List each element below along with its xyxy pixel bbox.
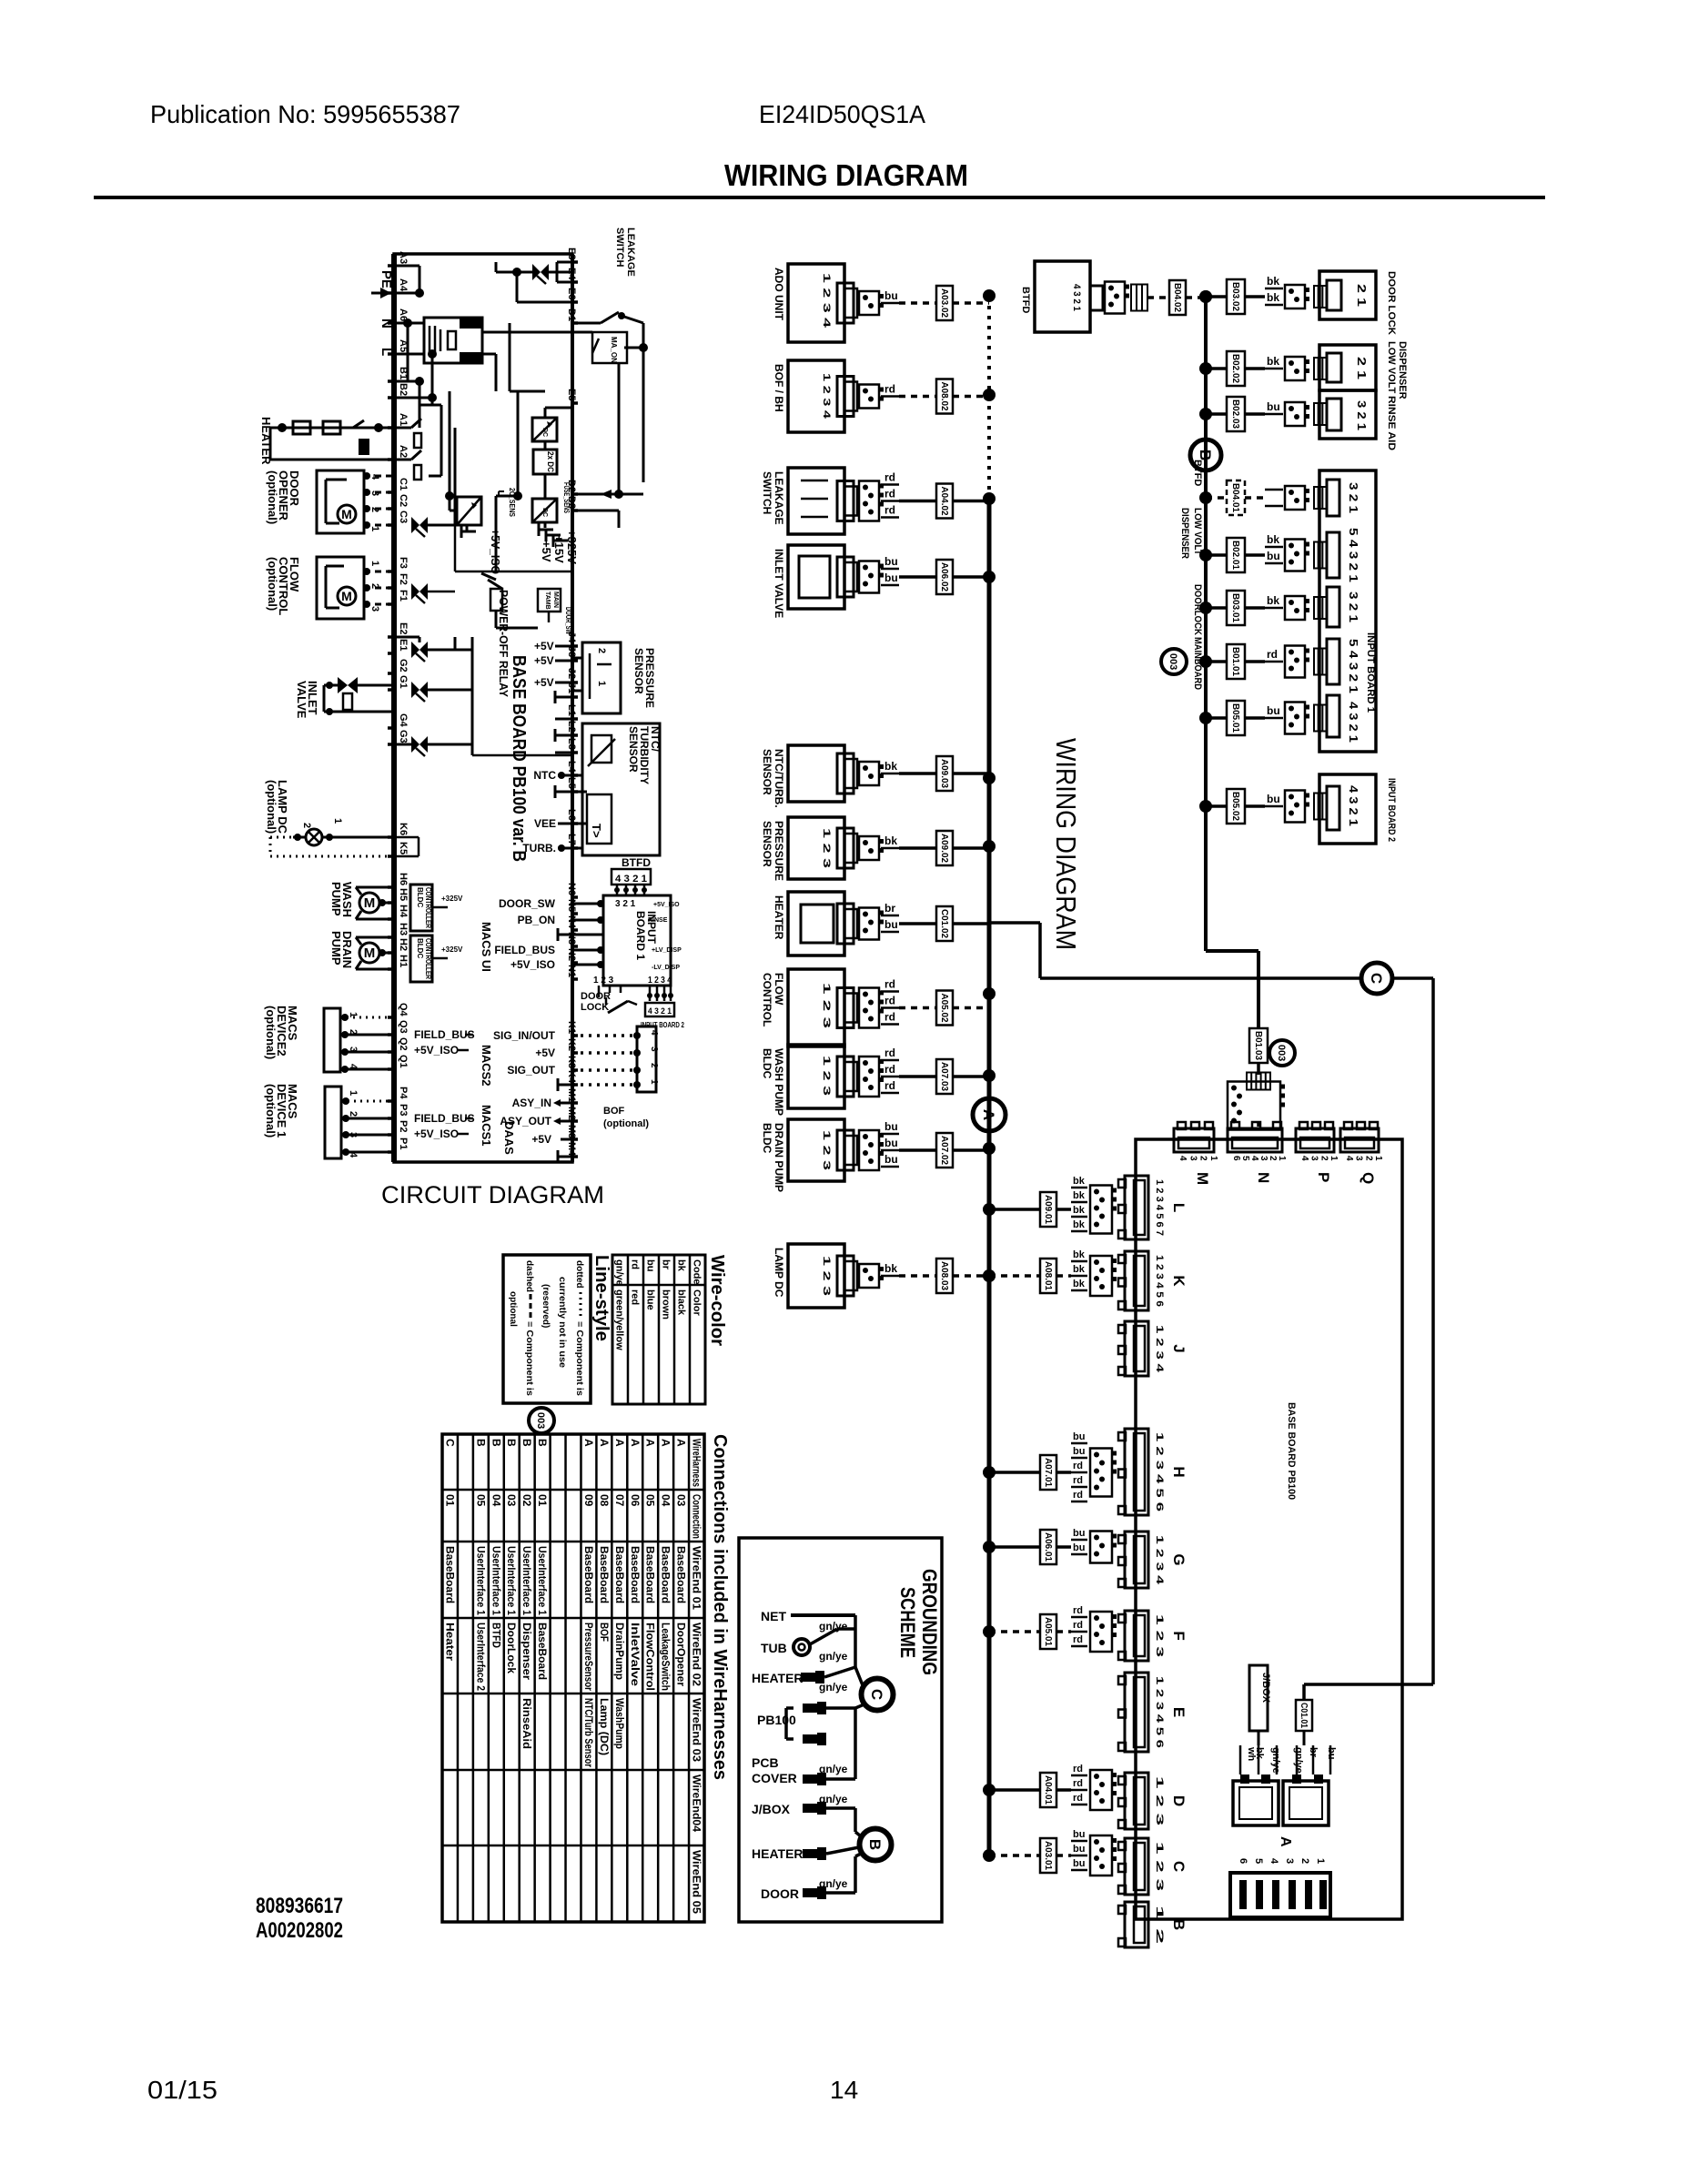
svg-text:BaseBoard: BaseBoard — [613, 1546, 626, 1603]
component MACS DEVICE2 (optional) — [264, 1006, 359, 1072]
svg-text:bk: bk — [1267, 291, 1279, 304]
svg-text:L: L — [1170, 1203, 1188, 1212]
svg-text:M2: M2 — [566, 1107, 577, 1120]
svg-text:A: A — [613, 1439, 626, 1447]
svg-text:BLDC: BLDC — [761, 1048, 773, 1079]
connector L block — [1118, 1176, 1188, 1239]
labels FIELD_BUS +5V_ISO (MACS1) — [414, 1112, 475, 1140]
svg-text:bk: bk — [1073, 1219, 1086, 1230]
svg-text:4: 4 — [1269, 1858, 1279, 1865]
svg-text:09: 09 — [582, 1494, 595, 1507]
svg-text:rd: rd — [884, 471, 895, 484]
svg-text:WireHarness: WireHarness — [691, 1439, 703, 1487]
label SIG_OUT — [507, 1064, 555, 1077]
svg-text:1: 1 — [649, 1079, 659, 1085]
svg-text:+5V: +5V — [534, 640, 554, 652]
wires bus to input board 1 — [558, 900, 604, 968]
label LEAKAGE SWITCH (circuit) — [614, 227, 636, 277]
svg-text:bk: bk — [884, 1262, 897, 1275]
svg-text:WireEnd 01: WireEnd 01 — [691, 1546, 703, 1610]
svg-text:4 3 2 1: 4 3 2 1 — [615, 874, 647, 885]
svg-text:bu: bu — [1073, 1446, 1085, 1457]
svg-text:gn/ye: gn/ye — [819, 1650, 848, 1663]
component LEAKAGE SWITCH — [761, 468, 996, 534]
svg-text:K: K — [1170, 1275, 1188, 1287]
ground PB100 — [757, 1702, 866, 1745]
svg-text:N: N — [379, 318, 394, 329]
ground NET — [761, 1609, 855, 1633]
svg-text:BASE BOARD PB100 var. B: BASE BOARD PB100 var. B — [509, 655, 529, 862]
inner wire mesh left — [419, 398, 572, 591]
triac F2 — [411, 583, 428, 603]
door switch block — [538, 589, 572, 634]
connector G block — [1118, 1532, 1188, 1588]
ground HEATER (C) — [752, 1667, 855, 1694]
svg-text:05: 05 — [474, 1494, 487, 1507]
wire B03.02 to DOOR LOCK — [1199, 275, 1327, 314]
svg-text:+5V: +5V — [540, 541, 553, 562]
svg-text:H5: H5 — [398, 888, 409, 901]
svg-text:TURB.: TURB. — [522, 842, 556, 854]
connector E block — [1118, 1673, 1188, 1752]
wire A07.01 to connector H — [983, 1431, 1117, 1501]
svg-text:N4: N4 — [566, 915, 577, 929]
svg-text:J2: J2 — [566, 668, 577, 679]
wire A03.01 to connector C — [983, 1829, 1117, 1876]
relay K1 line filter — [424, 318, 482, 363]
svg-text:B03.01: B03.01 — [1230, 593, 1240, 622]
svg-text:A04.02: A04.02 — [939, 487, 949, 516]
svg-text:LEAKAGE: LEAKAGE — [773, 471, 785, 525]
svg-text:PB_ON: PB_ON — [518, 914, 555, 926]
svg-text:red: red — [630, 1289, 641, 1305]
svg-text:UserInterface 1: UserInterface 1 — [505, 1546, 518, 1615]
component BOF / BH — [773, 360, 996, 432]
svg-text:C3: C3 — [398, 511, 409, 523]
svg-text:M1: M1 — [566, 1088, 577, 1102]
svg-text:3: 3 — [649, 1046, 659, 1052]
svg-text:03: 03 — [675, 1494, 688, 1507]
svg-text:Connection: Connection — [691, 1494, 703, 1539]
svg-text:bk: bk — [884, 834, 897, 847]
BOF connector box — [633, 1026, 659, 1092]
svg-text:Lamp (DC): Lamp (DC) — [598, 1698, 611, 1755]
svg-text:C: C — [868, 1689, 885, 1700]
svg-text:DRAIN PUMP: DRAIN PUMP — [773, 1123, 785, 1192]
+5V_ISO DC/DC converter — [445, 391, 502, 574]
svg-text:1 2 3 4: 1 2 3 4 — [821, 373, 832, 420]
svg-text:rd: rd — [884, 488, 895, 500]
svg-text:2: 2 — [348, 1111, 359, 1117]
svg-text:2: 2 — [1299, 1858, 1310, 1864]
component LAMP DC (harness) — [773, 1244, 996, 1308]
svg-text:WashPump: WashPump — [613, 1698, 626, 1749]
svg-text:3: 3 — [1354, 1156, 1364, 1161]
svg-text:bu: bu — [884, 555, 898, 568]
svg-text:BOF: BOF — [598, 1623, 611, 1642]
label TURB. — [522, 842, 572, 854]
label MACS2 — [480, 1045, 493, 1087]
svg-text:2: 2 — [649, 1063, 659, 1068]
svg-text:bk: bk — [1267, 594, 1279, 607]
svg-text:PCB: PCB — [752, 1755, 779, 1770]
svg-text:E: E — [1170, 1707, 1188, 1717]
wire N feed to relay — [394, 318, 424, 381]
svg-text:gn/ye: gn/ye — [819, 1877, 848, 1890]
svg-text:C01.02: C01.02 — [939, 909, 949, 938]
svg-text:1 2 3 4: 1 2 3 4 — [821, 273, 832, 329]
svg-text:(optional): (optional) — [266, 557, 279, 611]
svg-text:B02.02: B02.02 — [1230, 354, 1240, 383]
connector K block — [1118, 1251, 1188, 1310]
wires MACS DEVICE 1 to P pins — [341, 1097, 394, 1156]
label DAAS — [502, 1121, 516, 1155]
svg-text:C: C — [1170, 1861, 1188, 1872]
svg-text:bu: bu — [1073, 1542, 1085, 1553]
svg-text:B: B — [536, 1439, 549, 1447]
svg-text:WireEnd 05: WireEnd 05 — [691, 1850, 703, 1914]
svg-text:A04.01: A04.01 — [1043, 1775, 1053, 1805]
svg-text:1 2: 1 2 — [1154, 1906, 1165, 1944]
svg-text:MA_ON: MA_ON — [610, 337, 618, 363]
label FIELD_BUS (input board) — [494, 944, 555, 956]
labels FIELD_BUS +5V_ISO (MACS2) — [414, 1028, 475, 1057]
svg-text:3: 3 — [1258, 1156, 1269, 1161]
svg-text:A: A — [644, 1439, 657, 1447]
svg-text:BTFD: BTFD — [1020, 287, 1031, 313]
connections table — [442, 1434, 704, 1922]
svg-text:5 4 3 2 1: 5 4 3 2 1 — [1347, 528, 1360, 582]
svg-text:1 2 3: 1 2 3 — [1154, 1842, 1165, 1891]
svg-text:C: C — [1368, 973, 1385, 984]
svg-text:E5: E5 — [566, 389, 577, 400]
fuse DC converter box lower — [532, 474, 571, 522]
svg-text:2: 2 — [1319, 1156, 1329, 1161]
component WASH PUMP with BLDC controller — [329, 882, 463, 931]
svg-text:LAMP DC: LAMP DC — [773, 1248, 785, 1298]
connector M block (top) — [1174, 1122, 1218, 1185]
svg-text:T>: T> — [590, 824, 603, 838]
svg-text:LOW VOLT: LOW VOLT — [1386, 341, 1397, 394]
svg-text:RINSE: RINSE — [648, 917, 668, 924]
svg-text:SWITCH: SWITCH — [614, 227, 625, 267]
svg-text:A03.01: A03.01 — [1043, 1841, 1053, 1870]
svg-text:A06.01: A06.01 — [1043, 1532, 1053, 1562]
base board left edge pins A/B/C/F/E/G/K/H/Q/P — [388, 251, 409, 1152]
svg-text:rd: rd — [1073, 1620, 1083, 1631]
svg-text:B: B — [505, 1439, 518, 1447]
2x DC converter box — [533, 441, 557, 474]
svg-text:VALVE: VALVE — [295, 681, 308, 719]
svg-text:Connections included in WireHa: Connections included in WireHarnesses — [710, 1434, 730, 1780]
svg-text:rd: rd — [884, 383, 895, 396]
svg-text:bu: bu — [1267, 550, 1280, 562]
harness A main bus (dashed top) — [987, 296, 991, 499]
svg-text:A3: A3 — [398, 251, 409, 264]
svg-text:1 2 3 4 5 6 7: 1 2 3 4 5 6 7 — [1154, 1179, 1165, 1236]
svg-text:DISPENSER: DISPENSER — [1179, 508, 1190, 559]
svg-text:2 1: 2 1 — [1355, 284, 1369, 307]
svg-text:Wire-color: Wire-color — [707, 1255, 727, 1346]
svg-text:SENSOR: SENSOR — [761, 749, 773, 795]
footer page number 14 — [830, 2076, 858, 2104]
svg-text:br: br — [884, 902, 895, 915]
wire D2 vertical — [614, 363, 623, 499]
component INPUT BOARD 2 (wiring) — [1319, 774, 1397, 844]
label 2C_SENS — [499, 488, 516, 518]
component FLOW CONTROL (optional) — [266, 557, 380, 619]
svg-text:DC: DC — [541, 508, 548, 517]
label ASY_OUT — [500, 1115, 551, 1127]
svg-text:5: 5 — [1240, 1156, 1250, 1161]
connector circle 003 (tables) — [529, 1408, 554, 1433]
svg-text:1: 1 — [369, 526, 380, 531]
svg-text:RINSE AID: RINSE AID — [1386, 396, 1397, 450]
svg-text:br: br — [661, 1259, 672, 1270]
label BASE BOARD PB100 (wiring) — [1286, 1402, 1297, 1500]
svg-text:A09.02: A09.02 — [939, 834, 949, 863]
svg-text:K2: K2 — [566, 1038, 577, 1051]
label BASE BOARD PB100 var. B — [509, 655, 529, 862]
label L — [379, 348, 394, 356]
svg-text:M3: M3 — [566, 1125, 577, 1138]
component DOOR OPENER (optional) — [266, 470, 380, 533]
svg-text:G: G — [1170, 1553, 1188, 1565]
svg-text:Q1: Q1 — [398, 1055, 409, 1068]
triac C3 — [411, 517, 428, 537]
svg-text:rd: rd — [1073, 1793, 1083, 1804]
svg-text:+5V: +5V — [535, 1046, 555, 1059]
svg-text:rd: rd — [1267, 648, 1278, 661]
svg-text:bk: bk — [1267, 275, 1279, 288]
svg-text:FLOW: FLOW — [773, 973, 785, 1006]
svg-text:A2: A2 — [398, 445, 409, 458]
svg-text:ADO UNIT: ADO UNIT — [773, 268, 785, 321]
ground DOOR — [761, 1853, 863, 1901]
wire-color table — [612, 1255, 705, 1404]
svg-text:PressureSensor: PressureSensor — [582, 1623, 595, 1691]
component NTC/TURB. SENSOR (harness) — [761, 745, 996, 808]
base board PB100 outline (wiring) — [1136, 1139, 1402, 1919]
svg-text:1 2 3 4: 1 2 3 4 — [1154, 1325, 1165, 1373]
wires MACS DEVICE2 to Q pins — [340, 1014, 394, 1073]
label MACS UI — [480, 922, 493, 972]
svg-text:A: A — [629, 1439, 642, 1447]
svg-text:rd: rd — [1073, 1605, 1083, 1616]
svg-text:gn/ye: gn/ye — [1293, 1747, 1304, 1774]
svg-text:03: 03 — [505, 1494, 518, 1507]
power switch wiring D1 D2 D3 — [572, 312, 643, 528]
svg-text:1 2 3: 1 2 3 — [821, 983, 832, 1028]
svg-text:WireEnd04: WireEnd04 — [691, 1774, 703, 1832]
line-style legend title — [591, 1255, 612, 1341]
svg-text:brown: brown — [661, 1289, 672, 1319]
svg-text:J: J — [1170, 1344, 1188, 1352]
svg-text:5 4 3 2 1: 5 4 3 2 1 — [1347, 639, 1360, 693]
svg-text:B04.02: B04.02 — [1172, 283, 1182, 312]
svg-text:BLDC: BLDC — [416, 887, 424, 907]
svg-text:FlowControl: FlowControl — [644, 1623, 657, 1691]
grounding scheme box — [739, 1538, 942, 1922]
svg-text:gn/ye: gn/ye — [819, 1793, 848, 1805]
svg-text:BOF: BOF — [603, 1106, 625, 1117]
svg-text:PUMP: PUMP — [329, 882, 343, 916]
svg-text:FUSE_SENS: FUSE_SENS — [562, 482, 571, 513]
svg-text:+15V: +15V — [552, 535, 566, 563]
label ASY_IN — [512, 1097, 551, 1109]
svg-text:A09.03: A09.03 — [939, 759, 949, 788]
svg-text:M: M — [364, 895, 376, 911]
svg-text:H1: H1 — [398, 955, 409, 967]
svg-text:bu: bu — [1267, 400, 1280, 413]
svg-text:+LV_DISP: +LV_DISP — [652, 947, 682, 954]
svg-text:2 1: 2 1 — [1355, 357, 1369, 379]
component PRESSURE SENSOR (harness) — [761, 817, 996, 881]
grounding scheme title — [896, 1569, 941, 1675]
svg-text:A07.02: A07.02 — [939, 1136, 949, 1165]
svg-text:INLET VALVE: INLET VALVE — [773, 549, 785, 618]
wires door opener to C1 C2 C3 — [363, 472, 394, 529]
svg-text:A09.01: A09.01 — [1043, 1195, 1053, 1224]
svg-text:PUMP: PUMP — [329, 931, 343, 966]
svg-text:= Component is: = Component is — [524, 1321, 534, 1396]
svg-text:M: M — [364, 945, 376, 961]
connector A block (bottom) — [1230, 1836, 1330, 1917]
wire A06.01 to connector G — [983, 1528, 1117, 1564]
svg-text:rd: rd — [884, 1079, 895, 1092]
svg-text:1 2 3: 1 2 3 — [821, 828, 832, 868]
svg-text:EI24ID50QS1A: EI24ID50QS1A — [759, 100, 925, 128]
svg-text:08: 08 — [598, 1494, 611, 1507]
wire B01.01 to INPUT BOARD 1 — [1192, 637, 1327, 690]
svg-text:6: 6 — [1231, 1156, 1241, 1161]
svg-text:black: black — [676, 1289, 687, 1316]
svg-text:1: 1 — [332, 818, 343, 824]
wire leakage switch branch — [496, 262, 517, 272]
svg-text:2: 2 — [596, 648, 607, 653]
svg-text:bu: bu — [884, 1153, 898, 1166]
BTFD connector (circuit) — [612, 856, 651, 895]
svg-text:Line-style: Line-style — [591, 1255, 612, 1341]
svg-text:B05.02: B05.02 — [1230, 792, 1240, 821]
ground TUB — [761, 1629, 855, 1663]
svg-text:gn/ye: gn/ye — [614, 1259, 625, 1286]
label N — [379, 318, 394, 329]
svg-text:B: B — [521, 1439, 533, 1447]
svg-text:G1: G1 — [398, 675, 409, 689]
svg-text:bu: bu — [1267, 704, 1280, 717]
svg-text:rd: rd — [884, 978, 895, 991]
title WIRING DIAGRAM — [724, 158, 968, 192]
svg-text:SENSOR: SENSOR — [632, 648, 645, 694]
svg-text:CONTROLLER: CONTROLLER — [424, 887, 432, 928]
svg-text:(optional): (optional) — [265, 780, 278, 834]
svg-text:BaseBoard: BaseBoard — [536, 1623, 549, 1680]
svg-text:WireEnd 03: WireEnd 03 — [691, 1698, 703, 1762]
svg-text:A1: A1 — [398, 413, 409, 426]
svg-text:003: 003 — [1167, 653, 1178, 670]
svg-text:F2: F2 — [398, 573, 409, 585]
NTC/turbidity sensor box (circuit) — [572, 723, 662, 855]
svg-text:(optional): (optional) — [264, 1006, 278, 1059]
wire B02.01 to INPUT BOARD 1 — [1179, 508, 1327, 572]
svg-text:SWITCH: SWITCH — [761, 471, 773, 514]
svg-text:bk: bk — [1073, 1190, 1086, 1201]
connector J block — [1118, 1321, 1188, 1376]
svg-text:BLDC: BLDC — [416, 938, 424, 958]
svg-text:A4: A4 — [398, 278, 409, 292]
svg-text:1 2 3: 1 2 3 — [821, 1256, 832, 1296]
svg-text:bu: bu — [1073, 1431, 1085, 1442]
svg-text:G3: G3 — [398, 730, 409, 743]
part number 808936617 / A00202802 — [256, 1894, 343, 1943]
svg-text:2x DC: 2x DC — [546, 451, 555, 472]
svg-text:DOOR_SW: DOOR_SW — [499, 897, 556, 910]
svg-text:+325V: +325V — [441, 895, 463, 903]
svg-text:A08.02: A08.02 — [939, 382, 949, 411]
header publication number — [150, 100, 460, 128]
svg-text:2: 2 — [1363, 1156, 1373, 1161]
svg-text:bu: bu — [884, 918, 898, 931]
connector circle A — [973, 1098, 1006, 1131]
svg-text:BTFD: BTFD — [490, 1623, 502, 1648]
svg-text:optional: optional — [508, 1291, 518, 1327]
label PE with earth arrow — [371, 270, 394, 298]
wire B05.02 to INPUT BOARD 2 — [1199, 789, 1327, 824]
svg-text:A: A — [980, 1109, 997, 1120]
svg-text:blue: blue — [645, 1289, 656, 1310]
svg-text:1: 1 — [1277, 1156, 1287, 1161]
label HEATER — [259, 417, 273, 465]
svg-text:BOARD 1: BOARD 1 — [634, 911, 647, 960]
svg-text:rd: rd — [630, 1259, 641, 1269]
component WASH PUMP BLDC — [761, 1045, 996, 1116]
svg-text:bk: bk — [1073, 1249, 1086, 1260]
svg-text:(reserved): (reserved) — [541, 1284, 551, 1328]
base board right edge pins E/D/J/L/N/K/M — [566, 248, 578, 1157]
svg-text:WIRING DIAGRAM: WIRING DIAGRAM — [1050, 738, 1082, 950]
connector Q block (top) — [1340, 1122, 1383, 1184]
component LAMP DC (optional) — [265, 780, 394, 856]
svg-text:H3: H3 — [398, 923, 409, 935]
label SIG_IN/OUT — [493, 1029, 556, 1042]
svg-text:DISPENSER: DISPENSER — [1397, 341, 1408, 399]
svg-text:4: 4 — [1299, 1156, 1309, 1161]
svg-text:2: 2 — [1198, 1156, 1208, 1161]
svg-text:P4: P4 — [398, 1087, 409, 1099]
svg-text:003: 003 — [535, 1412, 546, 1429]
svg-text:LOCK: LOCK — [581, 1002, 609, 1013]
grounding collector C wires — [855, 1615, 863, 1685]
label POWER-OFF RELAY — [497, 590, 510, 697]
svg-text:5: 5 — [1253, 1858, 1264, 1864]
svg-text:CONTROL: CONTROL — [761, 973, 773, 1026]
svg-text:1 2 3 4 5 6: 1 2 3 4 5 6 — [1154, 1432, 1165, 1512]
svg-text:bu: bu — [1073, 1844, 1085, 1855]
component DISPENSER LOW VOLT box — [1319, 341, 1408, 399]
svg-text:E3: E3 — [566, 248, 577, 259]
svg-text:P3: P3 — [398, 1104, 409, 1116]
INPUT BOARD 2 connector (circuit) — [641, 976, 684, 1029]
title CIRCUIT DIAGRAM — [381, 1181, 604, 1208]
connector P block (top) — [1296, 1122, 1339, 1182]
svg-text:3: 3 — [369, 606, 380, 612]
svg-text:WIRING DIAGRAM: WIRING DIAGRAM — [724, 158, 968, 192]
svg-text:1: 1 — [348, 1090, 359, 1096]
svg-text:bk: bk — [884, 760, 897, 773]
wire L feed to relay — [394, 349, 437, 398]
grounding circle B — [860, 1829, 892, 1861]
